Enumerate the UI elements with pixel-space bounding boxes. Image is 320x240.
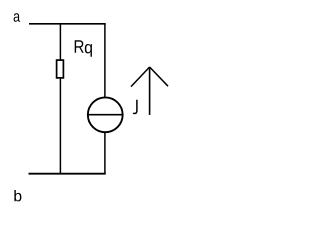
label J (133, 100, 137, 114)
wire resistor branch top (59, 24, 61, 60)
resistor Rq body (57, 60, 64, 78)
current direction arrow head left (131, 67, 150, 87)
wire bottom (node b rail) (29, 173, 106, 175)
node a (14, 13, 21, 21)
wire right branch down to current source (104, 24, 106, 98)
label Rq (75, 40, 92, 57)
current source J horizontal bar (88, 114, 123, 116)
node b (14, 190, 21, 201)
wire top (node a rail) (29, 23, 106, 25)
current direction arrow head right (150, 67, 168, 86)
current source J circle (88, 97, 123, 132)
wire current source bottom (104, 133, 106, 174)
current direction arrow shaft (149, 67, 151, 115)
wire resistor branch bottom (59, 79, 61, 174)
